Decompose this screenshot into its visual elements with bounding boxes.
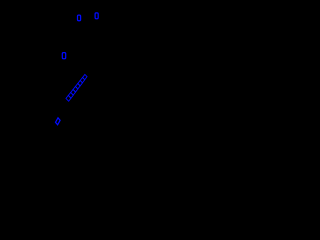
hashed wedge bond (chain of outlined dashes) — [66, 74, 87, 101]
wedge dash 6 — [71, 89, 76, 95]
wedge dash 5 — [73, 86, 78, 92]
wedge dash 3 — [78, 80, 83, 85]
atom label O1 (upper-left oxygen) — [78, 15, 81, 21]
lone diamond dash — [56, 118, 61, 125]
wedge dash 4 — [75, 83, 80, 89]
atom label O3 (middle oxygen) — [62, 53, 65, 59]
wedge dash 2 — [80, 77, 85, 82]
wedge dash 7 — [68, 92, 73, 98]
wedge dash 1 — [83, 74, 87, 79]
wedge dash 8 — [66, 95, 71, 101]
atom label O2 (upper-right oxygen) — [95, 13, 98, 19]
